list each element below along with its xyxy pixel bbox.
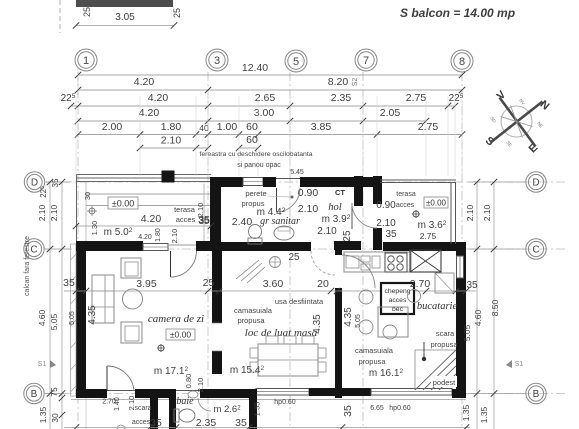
extension line v4 bbox=[238, 96, 240, 176]
wall mid vertical upper bbox=[212, 247, 222, 323]
wall top segment B bbox=[263, 177, 276, 187]
svg-text:chepeng: chepeng bbox=[384, 288, 410, 295]
svg-text:B: B bbox=[31, 389, 38, 400]
svg-text:3.85: 3.85 bbox=[311, 121, 332, 133]
door arc usa desfiintata bbox=[311, 251, 335, 275]
svg-text:D: D bbox=[31, 178, 38, 189]
svg-text:camera de zi: camera de zi bbox=[148, 313, 204, 325]
wall gr sanitar left bbox=[210, 177, 221, 250]
svg-text:25: 25 bbox=[342, 230, 353, 242]
svg-text:m 15.42: m 15.42 bbox=[230, 365, 265, 376]
svg-text:5.05: 5.05 bbox=[49, 313, 59, 330]
wall fragment (upper floor balcony wall) bbox=[76, 0, 173, 7]
dim 2.10 terasa right bbox=[376, 218, 396, 229]
svg-text:usa desfiintata: usa desfiintata bbox=[275, 297, 324, 306]
area m2.6 baie bbox=[213, 404, 241, 415]
dim 0.80 rot baie bbox=[184, 374, 193, 389]
svg-text:1.35: 1.35 bbox=[461, 404, 471, 421]
wall gr sanitar bottom bbox=[210, 242, 311, 251]
wall camera top bbox=[76, 241, 143, 251]
armchair bottom camera bbox=[121, 322, 142, 343]
level box terasa left bbox=[108, 197, 138, 209]
svg-text:3: 3 bbox=[214, 55, 220, 67]
svg-text:4.20: 4.20 bbox=[148, 92, 169, 104]
svg-text:1: 1 bbox=[83, 55, 89, 67]
dim 2.10 rot left a bbox=[37, 204, 47, 221]
svg-text:5: 5 bbox=[293, 56, 299, 68]
kitchen chair 1 bbox=[359, 290, 373, 304]
svg-text:35: 35 bbox=[342, 405, 354, 417]
svg-text:35: 35 bbox=[385, 229, 397, 240]
grid line axis 8 bbox=[461, 72, 463, 426]
grid bubble 8 bbox=[451, 50, 473, 72]
dim chain mid bbox=[64, 288, 476, 294]
svg-text:B: B bbox=[533, 389, 540, 400]
svg-text:m 3.62: m 3.62 bbox=[418, 220, 447, 231]
door arc baie bbox=[188, 391, 211, 411]
dim 1.35 rot annex bbox=[253, 402, 262, 417]
svg-text:7: 7 bbox=[363, 55, 369, 67]
svg-text:S1: S1 bbox=[515, 361, 524, 368]
svg-text:2.35: 2.35 bbox=[331, 92, 352, 104]
svg-text:m 16.12: m 16.12 bbox=[369, 368, 404, 379]
grid line axis C bbox=[46, 248, 566, 250]
level box camera bbox=[166, 329, 195, 340]
dim 25 rot hol bbox=[342, 230, 353, 242]
svg-text:m 5.02: m 5.02 bbox=[104, 227, 133, 238]
svg-text:35: 35 bbox=[63, 277, 75, 289]
svg-text:propusa: propusa bbox=[358, 357, 386, 366]
svg-text:2.75: 2.75 bbox=[418, 121, 439, 133]
svg-text:5.05: 5.05 bbox=[69, 311, 76, 325]
svg-text:8.50: 8.50 bbox=[490, 299, 500, 316]
label scara acces annex bbox=[132, 405, 152, 426]
survey point terasa right bbox=[412, 210, 420, 218]
svg-text:35: 35 bbox=[51, 178, 60, 187]
dim 2.10 rot left b bbox=[49, 204, 59, 221]
dim 6.65 bottom bbox=[370, 405, 384, 412]
svg-text:±0.00: ±0.00 bbox=[112, 199, 134, 209]
dim 4.20 small terasa bbox=[138, 234, 152, 241]
window bottom 2 bbox=[371, 389, 452, 396]
dim row 2.10-60 bbox=[137, 134, 261, 151]
grid stub line bbox=[59, 0, 61, 33]
dim 4.35 rot bucatarie bbox=[343, 307, 354, 327]
wall exterior right bbox=[456, 242, 466, 398]
svg-text:2.10: 2.10 bbox=[298, 203, 319, 215]
label terasa acces left bbox=[174, 205, 196, 224]
svg-text:0.90: 0.90 bbox=[376, 200, 396, 211]
chepeng box bbox=[381, 283, 414, 314]
door bottom camera bbox=[107, 390, 135, 392]
grid bubble 7 bbox=[355, 49, 377, 71]
section S1 right bbox=[506, 360, 523, 368]
right margin dim line outer bbox=[491, 179, 497, 429]
svg-text:12.40: 12.40 bbox=[242, 62, 268, 74]
svg-text:baie: baie bbox=[176, 396, 194, 407]
dim 30 rot left bbox=[50, 413, 60, 423]
svg-text:4.20: 4.20 bbox=[141, 213, 162, 225]
svg-text:30: 30 bbox=[83, 192, 92, 200]
window bottom 1 bbox=[256, 389, 309, 396]
dim 2.10 rot right b bbox=[482, 204, 492, 221]
wall mid vertical lower bbox=[212, 351, 222, 374]
dim 25 camera right bbox=[203, 277, 215, 289]
svg-text:5.45: 5.45 bbox=[290, 169, 304, 176]
dim 2.70 bucatarie bbox=[410, 278, 431, 290]
level box terasa right bbox=[424, 197, 448, 208]
survey circle bottom bbox=[117, 425, 125, 429]
svg-text:1.80: 1.80 bbox=[155, 228, 162, 242]
door baie opening bbox=[176, 390, 200, 392]
dim 2.70 bottom bbox=[102, 399, 116, 406]
extension line v1 bbox=[139, 96, 141, 176]
wall hol right lower bbox=[373, 228, 382, 250]
door top opening bbox=[276, 179, 300, 213]
svg-text:2.10: 2.10 bbox=[317, 226, 337, 237]
kitchen chair 3 bbox=[383, 325, 397, 339]
svg-text:4.35: 4.35 bbox=[312, 314, 323, 334]
dim 35 rot left bbox=[51, 178, 60, 187]
dim 5.05 rot right bbox=[462, 324, 472, 341]
svg-text:1.00: 1.00 bbox=[217, 121, 238, 133]
door camera top leaf bbox=[168, 245, 197, 277]
svg-text:4.35: 4.35 bbox=[343, 307, 354, 327]
dim row 2.00-1.80-40-1.00-60-3.85-2.75 bbox=[75, 121, 465, 138]
dim 20 loc bbox=[317, 278, 329, 290]
window note line1 bbox=[200, 151, 313, 158]
label gr sanitar bbox=[260, 216, 300, 227]
svg-text:loc de luat masa: loc de luat masa bbox=[245, 327, 318, 339]
svg-text:8.20: 8.20 bbox=[328, 76, 349, 88]
svg-text:35: 35 bbox=[198, 216, 210, 227]
svg-text:2.10: 2.10 bbox=[161, 135, 182, 147]
stairs arrow bbox=[422, 342, 426, 361]
svg-text:m 3.92: m 3.92 bbox=[322, 214, 351, 225]
svg-text:S2: S2 bbox=[352, 78, 359, 87]
dim 25 left bbox=[82, 7, 92, 17]
floor sink loc bbox=[270, 257, 281, 268]
label camasuiala propusa loc bbox=[234, 306, 273, 325]
dimension 3.05 line bbox=[73, 12, 177, 29]
svg-text:3.05: 3.05 bbox=[115, 12, 135, 23]
dim 2.10 rot bottom bbox=[127, 396, 136, 411]
svg-text:calcan fara ferestre: calcan fara ferestre bbox=[24, 236, 31, 296]
extension line v11 bbox=[454, 96, 456, 176]
steps shower loc bbox=[236, 260, 265, 283]
section S2 marker bbox=[352, 78, 359, 87]
wall CT right bbox=[354, 176, 363, 206]
svg-text:2.10: 2.10 bbox=[376, 218, 396, 229]
grid line axis B bbox=[46, 393, 566, 395]
svg-text:3.95: 3.95 bbox=[136, 278, 157, 290]
survey point camera bbox=[157, 344, 165, 352]
dim 35 rot bottom right bbox=[342, 405, 354, 417]
dim 5.05 rot left bbox=[49, 313, 59, 330]
sink gr sanitar bbox=[274, 226, 294, 240]
svg-text:6.65: 6.65 bbox=[370, 405, 384, 412]
dim 2.10 rot terasa bbox=[170, 229, 179, 244]
svg-text:2.10: 2.10 bbox=[465, 204, 475, 221]
svg-text:D: D bbox=[532, 178, 539, 189]
dim 35 terasa bbox=[198, 214, 210, 226]
wall mid vertical bottom stub bbox=[212, 391, 222, 398]
left margin dim line outer bbox=[47, 179, 53, 429]
bottom dim line bbox=[64, 424, 470, 429]
svg-text:4.20: 4.20 bbox=[134, 76, 155, 88]
kitchen stove bbox=[385, 253, 407, 272]
grid bubble D left bbox=[24, 172, 70, 192]
wall hol right upper bbox=[373, 176, 382, 204]
svg-text:hp0.60: hp0.60 bbox=[274, 399, 296, 406]
svg-text:60: 60 bbox=[246, 121, 258, 133]
svg-text:0.80: 0.80 bbox=[184, 374, 193, 389]
wall kitchen top bbox=[383, 242, 466, 251]
svg-text:25: 25 bbox=[82, 7, 92, 17]
area m5.0 terasa bbox=[104, 227, 133, 238]
label scara propusa bbox=[430, 329, 458, 349]
extension line top left bbox=[77, 66, 79, 96]
svg-text:35: 35 bbox=[466, 280, 478, 291]
kitchen fridge bbox=[410, 250, 441, 272]
svg-text:perete: perete bbox=[245, 189, 266, 198]
label loc de luat masa bbox=[245, 327, 318, 339]
dim row 4.20/8.20 bbox=[75, 76, 465, 93]
svg-text:acces: acces bbox=[176, 215, 196, 224]
dim 22.5 rot left bbox=[39, 186, 48, 198]
dim 4.20 terasa bbox=[141, 213, 162, 225]
window top wall bbox=[243, 178, 263, 186]
svg-text:2.10: 2.10 bbox=[482, 204, 492, 221]
label podest bbox=[431, 376, 457, 387]
svg-text:1.35: 1.35 bbox=[38, 406, 48, 423]
dim 35 right bbox=[466, 280, 478, 291]
svg-text:1.80: 1.80 bbox=[161, 121, 182, 133]
dim 2.10 rot right a bbox=[465, 204, 475, 221]
svg-text:2.70: 2.70 bbox=[410, 278, 431, 290]
svg-text:propusa: propusa bbox=[430, 340, 458, 349]
grid bubble C left bbox=[24, 239, 70, 259]
wall exterior left bbox=[71, 241, 87, 398]
svg-text:hp0.60: hp0.60 bbox=[389, 405, 411, 412]
extension line v8 bbox=[376, 96, 378, 176]
kitchen table bbox=[378, 273, 454, 337]
svg-text:2.10: 2.10 bbox=[170, 229, 179, 244]
dim 35 camera left bbox=[63, 277, 75, 289]
svg-text:4.35: 4.35 bbox=[87, 305, 98, 325]
dim 35 annex bbox=[150, 417, 162, 429]
dim 4.35 camera bbox=[87, 305, 98, 325]
grid line axis 5 bbox=[289, 72, 291, 426]
grid bubble 3 bbox=[206, 49, 228, 71]
dining table loc bbox=[250, 336, 326, 376]
door kitchen bbox=[342, 255, 375, 288]
wall bottom segment A bbox=[76, 389, 107, 398]
dim 2.75 terasa right bbox=[420, 231, 437, 241]
wall hol bottom piece bbox=[334, 241, 361, 250]
svg-text:m 2.62: m 2.62 bbox=[213, 404, 241, 415]
S balcon label bbox=[400, 6, 515, 20]
dim row 22-4.20-2.65-2.35-2.75 bbox=[61, 92, 464, 109]
grid line axis 3 bbox=[207, 72, 209, 426]
grid bubble 1 bbox=[75, 49, 97, 71]
dim 1.80 rot terasa bbox=[155, 228, 162, 242]
area m16.1 bucatarie bbox=[369, 368, 404, 379]
dim 4.35 rot loc bbox=[312, 314, 323, 334]
svg-text:5.05: 5.05 bbox=[355, 314, 362, 328]
dim 2.10 rot baie bbox=[196, 378, 205, 393]
dim 2.10 rot col3 bbox=[196, 203, 205, 218]
extension line v9 bbox=[425, 96, 427, 176]
dim 35 col3 bbox=[198, 216, 210, 227]
extension line v3 bbox=[207, 96, 209, 176]
wall top segment A bbox=[210, 177, 243, 187]
wall camera top corner bbox=[196, 241, 221, 251]
dim 35 terasa right bbox=[385, 229, 397, 240]
svg-text:1.35: 1.35 bbox=[253, 402, 262, 417]
dim 2.10 hol bottom bbox=[317, 226, 337, 237]
toilet baie bbox=[174, 409, 195, 422]
door dot perete bbox=[268, 196, 294, 199]
svg-text:S1: S1 bbox=[38, 361, 47, 368]
window note line2 bbox=[237, 162, 281, 169]
dim 75 rot left bbox=[49, 387, 59, 397]
svg-text:podest: podest bbox=[433, 378, 456, 387]
svg-text:±0.00: ±0.00 bbox=[170, 330, 191, 340]
svg-text:S balcon = 14.00 mp: S balcon = 14.00 mp bbox=[400, 6, 515, 20]
dim 0.90 terasa right bbox=[376, 200, 396, 211]
grid line axis 7 bbox=[362, 72, 364, 426]
svg-text:C: C bbox=[30, 245, 37, 256]
svg-text:scara: scara bbox=[436, 329, 455, 338]
svg-text:3.60: 3.60 bbox=[263, 278, 284, 290]
label camasuiala propusa bucatarie bbox=[355, 346, 394, 366]
stairs bucatarie bbox=[415, 350, 456, 390]
svg-text:8: 8 bbox=[459, 56, 465, 68]
svg-text:30: 30 bbox=[50, 413, 60, 423]
label camera de zi bbox=[148, 313, 204, 325]
svg-text:CT: CT bbox=[335, 188, 345, 197]
svg-text:camasuiala: camasuiala bbox=[234, 306, 273, 315]
wall top segment C bbox=[300, 177, 380, 187]
dim 8.50 rot right bbox=[490, 299, 500, 316]
svg-text:40: 40 bbox=[199, 123, 209, 133]
dim hp060 baie bbox=[274, 399, 296, 406]
svg-text:fereastra cu deschidere oscil: fereastra cu deschidere oscilobatanta bbox=[200, 151, 313, 158]
dim 5.45 bbox=[290, 169, 304, 176]
extension line v0 bbox=[75, 96, 77, 176]
svg-text:2.00: 2.00 bbox=[102, 121, 123, 133]
dim 35 annex right bbox=[235, 417, 247, 429]
wall kitchen left upper bbox=[335, 250, 342, 255]
terrace edge top bbox=[76, 175, 211, 242]
dim 3.60 loc bbox=[263, 278, 284, 290]
wall bottom segment E bbox=[452, 389, 466, 398]
terrace right edge top bbox=[380, 180, 456, 183]
compass rose bbox=[483, 88, 552, 155]
svg-text:1.30: 1.30 bbox=[90, 221, 99, 236]
label perete propus bbox=[242, 189, 267, 208]
label usa desfiintata bbox=[275, 297, 324, 306]
svg-text:5.05: 5.05 bbox=[462, 324, 472, 341]
dim 2.10 gr sanitar bbox=[298, 203, 319, 215]
dim hp060 bottom right bbox=[389, 405, 411, 412]
svg-text:acces: acces bbox=[389, 297, 407, 304]
label CT bbox=[335, 188, 345, 197]
svg-text:1.40: 1.40 bbox=[114, 397, 121, 411]
extension line v5 bbox=[257, 96, 259, 176]
dim chain terasa bbox=[73, 223, 214, 229]
svg-text:propusa: propusa bbox=[237, 316, 265, 325]
dim 1.35 rot right b bbox=[479, 406, 489, 423]
wall annex left stub bbox=[150, 389, 158, 429]
dim 0.90 gr sanitar bbox=[298, 187, 319, 199]
extension line v2 bbox=[195, 96, 197, 176]
section S1 left bbox=[38, 360, 56, 368]
grid line axis D bbox=[46, 181, 566, 183]
grid bubble 5 bbox=[285, 50, 307, 72]
svg-text:acces: acces bbox=[396, 202, 415, 209]
svg-text:0.90: 0.90 bbox=[298, 187, 319, 199]
dim 4.60 rot right bbox=[473, 309, 483, 326]
door mid wall bbox=[212, 323, 222, 351]
wall line below bottom bbox=[71, 398, 466, 429]
extension line v7 bbox=[362, 96, 364, 176]
kitchen chair 2 bbox=[359, 320, 373, 334]
svg-text:2.10: 2.10 bbox=[196, 378, 205, 393]
wall annex mid stub bbox=[169, 398, 176, 429]
svg-text:2.75: 2.75 bbox=[420, 231, 437, 241]
kitchen sink bbox=[346, 256, 380, 270]
sofa L camera bbox=[92, 275, 114, 323]
extension line v10 bbox=[447, 96, 449, 176]
toilet gr sanitar bbox=[248, 225, 262, 245]
armchair top camera bbox=[121, 258, 141, 278]
svg-text:20: 20 bbox=[317, 278, 329, 290]
svg-text:75: 75 bbox=[49, 387, 59, 397]
svg-text:4.60: 4.60 bbox=[37, 309, 47, 326]
svg-text:terasa: terasa bbox=[174, 205, 196, 214]
door arc hol-terrace bbox=[352, 203, 377, 229]
svg-text:camasuiala: camasuiala bbox=[355, 346, 394, 355]
dim row 4.20-3.00-2.05 bbox=[75, 107, 429, 124]
svg-text:terasa: terasa bbox=[396, 191, 416, 198]
grid bubble B left bbox=[24, 383, 64, 403]
svg-text:gr sanitar: gr sanitar bbox=[260, 216, 300, 227]
kitchen chair 4 bbox=[408, 290, 421, 303]
door arc bottom camera bbox=[107, 366, 135, 391]
area m3.6 terasa right bbox=[418, 220, 447, 231]
dim 5.05 bucatarie small bbox=[355, 314, 362, 328]
grid bubble C right bbox=[468, 239, 546, 259]
grid bubble B right bbox=[468, 383, 546, 403]
svg-text:si panou opac: si panou opac bbox=[237, 162, 281, 169]
svg-text:4.60: 4.60 bbox=[473, 309, 483, 326]
wall bottom segment D bbox=[309, 388, 371, 396]
dim 1.40 rot bottom bbox=[114, 397, 121, 411]
svg-text:2.10: 2.10 bbox=[37, 204, 47, 221]
right margin dim line inner bbox=[474, 179, 480, 429]
grid bubble D right bbox=[468, 172, 546, 192]
dim 3.95 camera bbox=[136, 278, 157, 290]
wall kitchen left lower bbox=[335, 288, 342, 398]
wall annex right stub bbox=[249, 389, 257, 429]
window right wall bbox=[457, 256, 464, 278]
label bucatarie bbox=[417, 301, 458, 312]
svg-text:1.35: 1.35 bbox=[479, 406, 489, 423]
svg-text:2.40: 2.40 bbox=[232, 216, 253, 228]
area camera m17.1 bbox=[154, 366, 189, 377]
